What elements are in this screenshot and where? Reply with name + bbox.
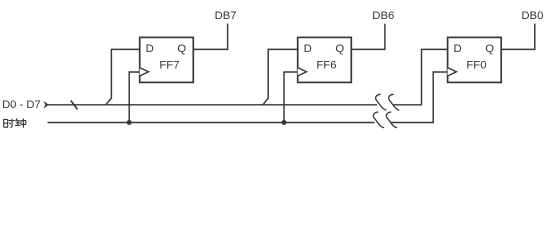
svg-text:FF0: FF0 — [466, 59, 486, 71]
svg-text:D: D — [304, 43, 312, 55]
svg-text:FF6: FF6 — [316, 59, 336, 71]
svg-text:Q: Q — [335, 43, 344, 55]
wire FF7 Q to DB7 — [193, 24, 227, 50]
svg-text:DB0: DB0 — [521, 10, 543, 22]
wire clock line (left segment) — [48, 122, 375, 124]
clock break mark 1 — [373, 112, 384, 128]
svg-text:D: D — [454, 43, 462, 55]
flip-flop FF0 box — [448, 37, 502, 82]
label 时钟 (clock), drawn as strokes — [3, 118, 26, 127]
svg-text:Q: Q — [177, 43, 186, 55]
bus break mark 2 — [389, 94, 400, 110]
clock break mark 2 — [386, 112, 397, 128]
svg-text:DB7: DB7 — [215, 10, 237, 22]
wire FF7 clock riser — [129, 72, 140, 123]
junction dot FF7 clock tap — [127, 120, 132, 125]
bus break mark 1 — [376, 94, 387, 110]
bus width slash — [71, 101, 78, 110]
FF6 clock triangle — [298, 68, 307, 76]
bus input arrow — [43, 101, 48, 109]
svg-text:FF7: FF7 — [159, 59, 179, 71]
wire FF7 D branch from bus — [106, 49, 140, 104]
wire FF6 clock riser — [284, 72, 298, 123]
svg-text:DB6: DB6 — [372, 10, 394, 22]
FF0 clock triangle — [448, 68, 457, 76]
wire FF0 Q to DB0 — [501, 24, 535, 50]
wire clock line (right segment) to FF0 clock input — [390, 72, 447, 123]
junction dot FF6 clock tap — [282, 120, 287, 125]
wire FF6 Q to DB6 — [351, 24, 385, 50]
flip-flop FF6 box — [298, 37, 352, 82]
wire bus D0-D7 (right segment) to FF0 D input — [393, 49, 448, 104]
FF7 clock triangle — [140, 68, 149, 76]
svg-text:D: D — [146, 43, 154, 55]
svg-text:D0 - D7: D0 - D7 — [2, 99, 41, 111]
wire FF6 D branch from bus — [263, 49, 298, 104]
svg-text:Q: Q — [485, 43, 494, 55]
flip-flop FF7 box — [140, 37, 194, 82]
wire bus D0-D7 horizontal (left segment) — [47, 104, 377, 106]
